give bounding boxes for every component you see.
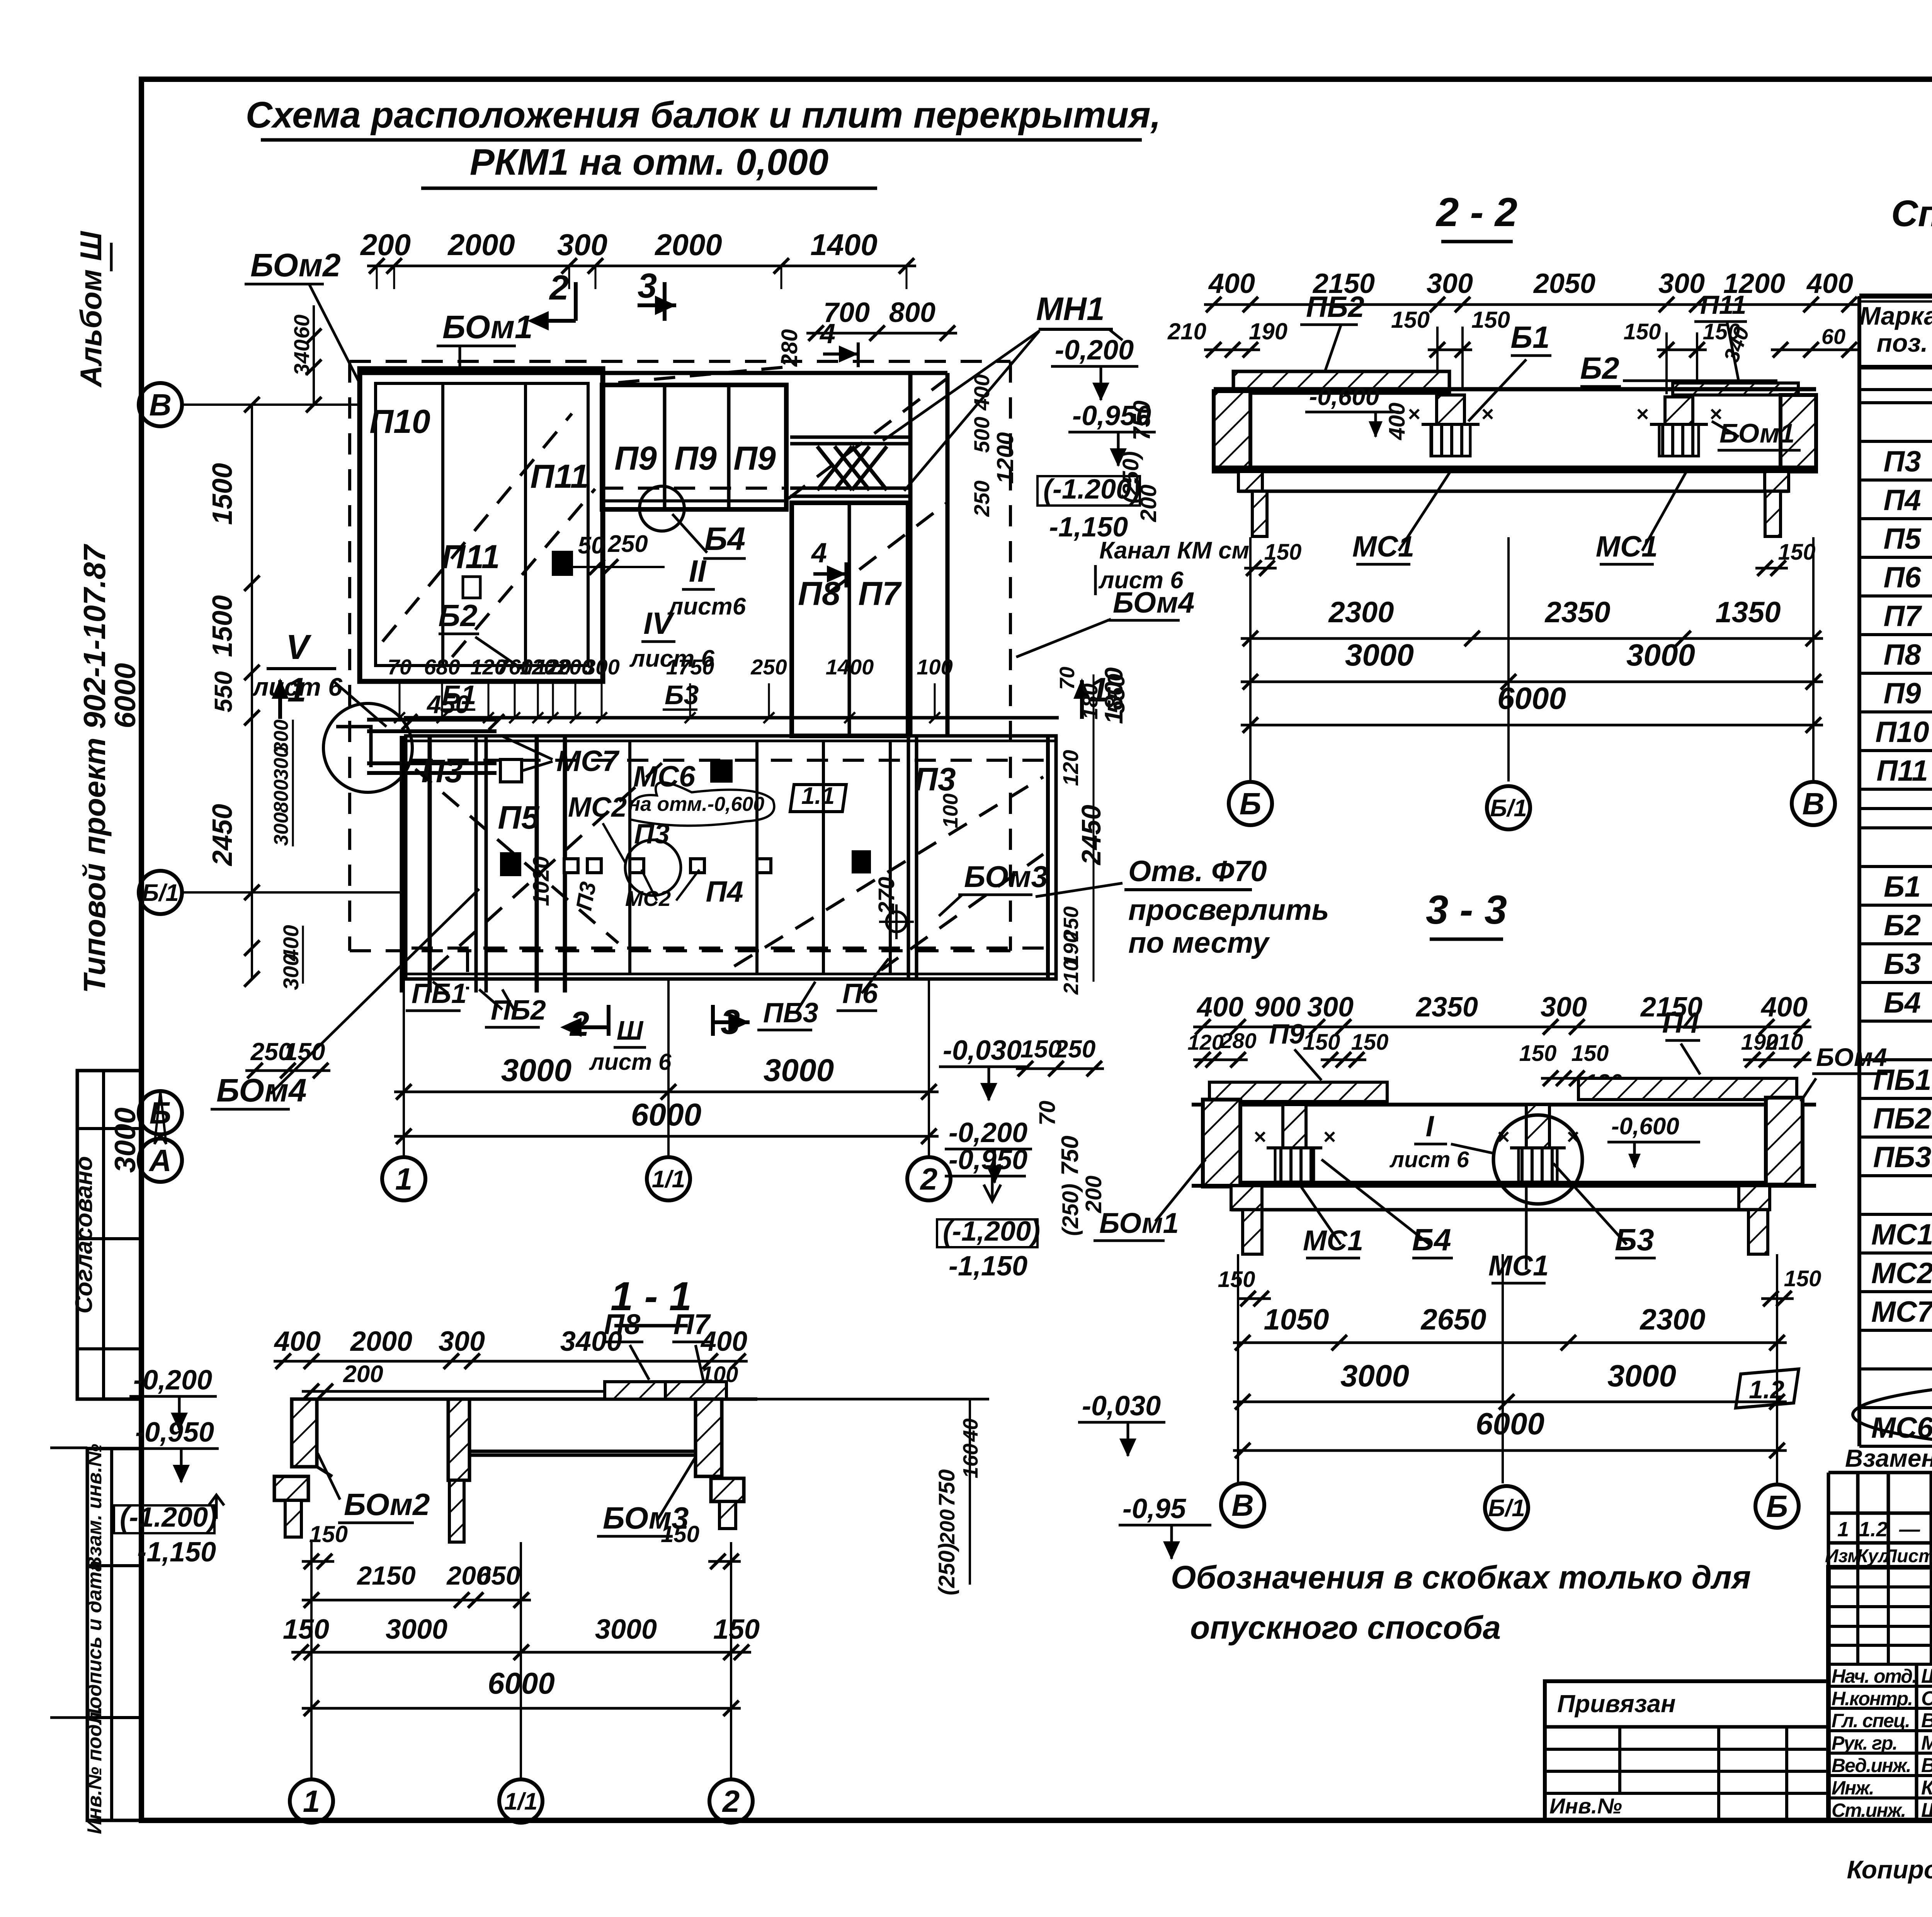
- svg-text:210: 210: [1765, 1030, 1803, 1055]
- svg-text:200: 200: [1081, 1176, 1106, 1214]
- svg-text:Изм: Изм: [1825, 1546, 1861, 1566]
- svg-text:1200: 1200: [992, 432, 1018, 484]
- svg-text:Типовой проект 902-1-107.87: Типовой проект 902-1-107.87: [77, 544, 112, 993]
- svg-text:Марка,: Марка,: [1859, 301, 1932, 330]
- svg-text:3000: 3000: [595, 1614, 657, 1645]
- svg-text:-0,200: -0,200: [133, 1365, 212, 1396]
- svg-text:4: 4: [811, 538, 827, 569]
- svg-text:П6: П6: [842, 978, 878, 1009]
- svg-text:2650: 2650: [1420, 1303, 1486, 1336]
- svg-text:П3: П3: [1884, 445, 1921, 478]
- svg-text:-1,150: -1,150: [949, 1251, 1027, 1282]
- svg-text:150: 150: [1391, 307, 1430, 333]
- svg-text:Подпись и дата: Подпись и дата: [83, 1560, 106, 1723]
- svg-text:Шильмовер: Шильмовер: [1921, 1799, 1932, 1822]
- svg-text:-0,030: -0,030: [1082, 1391, 1161, 1422]
- svg-text:180: 180: [1078, 683, 1102, 719]
- svg-text:П9: П9: [674, 440, 717, 477]
- svg-text:6000: 6000: [631, 1097, 701, 1132]
- svg-text:2: 2: [722, 1784, 740, 1818]
- svg-text:МС2: МС2: [568, 792, 627, 823]
- svg-text:П9: П9: [1884, 677, 1921, 710]
- svg-text:П11: П11: [1700, 290, 1747, 320]
- svg-text:Сокольская: Сокольская: [1921, 1687, 1932, 1710]
- svg-text:МН1: МН1: [1036, 291, 1104, 327]
- svg-text:Б2: Б2: [1580, 351, 1619, 385]
- svg-text:Б/1: Б/1: [1490, 795, 1527, 822]
- svg-text:400: 400: [969, 374, 994, 410]
- svg-text:В: В: [1802, 787, 1825, 821]
- svg-text:2: 2: [920, 1162, 938, 1196]
- svg-text:П4: П4: [1884, 484, 1921, 517]
- svg-text:Корнюхин: Корнюхин: [1921, 1777, 1932, 1799]
- svg-text:750: 750: [1129, 400, 1155, 440]
- svg-text:Н.контр.: Н.контр.: [1832, 1688, 1912, 1709]
- svg-text:МС1: МС1: [1871, 1218, 1932, 1251]
- svg-text:П7: П7: [673, 1308, 711, 1340]
- svg-text:1500: 1500: [207, 595, 238, 657]
- svg-text:ПБ2: ПБ2: [1306, 291, 1364, 323]
- svg-text:3000: 3000: [1345, 638, 1414, 672]
- svg-text:БОм4: БОм4: [216, 1072, 307, 1108]
- svg-text:А: А: [148, 1143, 172, 1178]
- svg-text:150: 150: [1218, 1267, 1255, 1292]
- svg-text:1350: 1350: [1715, 596, 1781, 629]
- svg-text:300: 300: [270, 747, 293, 780]
- svg-text:2 - 2: 2 - 2: [1435, 190, 1517, 235]
- svg-text:Вед.инж.: Вед.инж.: [1832, 1755, 1911, 1776]
- svg-text:Спецификация к схеме расположе: Спецификация к схеме расположения: [1891, 193, 1932, 234]
- svg-text:300: 300: [270, 812, 293, 846]
- svg-text:3000: 3000: [109, 1107, 142, 1173]
- svg-text:Гл. спец.: Гл. спец.: [1832, 1710, 1910, 1731]
- svg-text:ПБ2: ПБ2: [491, 995, 546, 1026]
- svg-text:70: 70: [1035, 1101, 1060, 1126]
- svg-text:Б4: Б4: [1884, 986, 1921, 1019]
- svg-text:-1,150: -1,150: [137, 1537, 216, 1568]
- svg-text:П3: П3: [571, 880, 601, 913]
- svg-text:Альбом Ш: Альбом Ш: [74, 231, 108, 388]
- svg-text:-0,030: -0,030: [943, 1035, 1022, 1066]
- svg-text:Власенко: Власенко: [1921, 1709, 1932, 1732]
- svg-text:2300: 2300: [1639, 1303, 1705, 1336]
- svg-text:Шейко: Шейко: [1921, 1665, 1932, 1687]
- svg-text:просверлить: просверлить: [1128, 894, 1329, 926]
- svg-text:Б/1: Б/1: [1488, 1495, 1525, 1522]
- svg-text:-0,950: -0,950: [949, 1144, 1027, 1175]
- svg-text:400: 400: [1806, 268, 1853, 299]
- svg-text:Б: Б: [1766, 1489, 1788, 1524]
- svg-text:Б1: Б1: [1884, 870, 1921, 903]
- svg-text:МС7: МС7: [1871, 1296, 1932, 1328]
- svg-text:210: 210: [1060, 960, 1083, 995]
- svg-text:Мозолова: Мозолова: [1921, 1732, 1932, 1754]
- svg-text:Б: Б: [1240, 787, 1262, 821]
- svg-text:на отм.-0,600: на отм.-0,600: [628, 793, 765, 815]
- svg-text:1: 1: [303, 1784, 320, 1818]
- svg-text:2: 2: [549, 269, 569, 307]
- svg-text:1/1: 1/1: [652, 1166, 685, 1193]
- svg-text:лист 6: лист 6: [589, 1049, 672, 1075]
- svg-text:Б1: Б1: [1510, 320, 1549, 354]
- svg-text:2150: 2150: [356, 1561, 415, 1590]
- svg-text:3000: 3000: [386, 1614, 447, 1645]
- svg-text:1: 1: [1837, 1518, 1849, 1541]
- svg-text:БОм4: БОм4: [1816, 1043, 1887, 1071]
- svg-text:150: 150: [1264, 540, 1302, 565]
- svg-text:БОм3: БОм3: [964, 860, 1048, 894]
- svg-text:300: 300: [279, 954, 303, 990]
- svg-text:200: 200: [360, 228, 411, 262]
- svg-text:П10: П10: [369, 403, 430, 440]
- svg-text:-0,200: -0,200: [1055, 335, 1134, 366]
- svg-text:Ш: Ш: [617, 1015, 644, 1045]
- svg-text:П7: П7: [1884, 600, 1923, 633]
- svg-text:П8: П8: [1884, 638, 1922, 671]
- svg-text:-0,200: -0,200: [949, 1117, 1027, 1148]
- svg-text:300: 300: [439, 1326, 485, 1357]
- svg-text:2450: 2450: [1076, 805, 1106, 866]
- svg-text:-0,950: -0,950: [135, 1417, 214, 1448]
- svg-text:Б/1: Б/1: [142, 880, 179, 906]
- svg-text:70: 70: [1056, 667, 1079, 690]
- svg-text:МС6: МС6: [633, 760, 696, 793]
- svg-text:-0,95: -0,95: [1122, 1493, 1186, 1524]
- svg-text:750: 750: [1057, 1136, 1083, 1175]
- svg-text:50: 50: [578, 532, 605, 559]
- svg-text:250: 250: [607, 531, 648, 557]
- svg-text:БОм2: БОм2: [250, 247, 341, 283]
- svg-text:Б2: Б2: [1884, 909, 1921, 942]
- svg-text:1/1: 1/1: [504, 1788, 537, 1815]
- svg-text:МС2: МС2: [1871, 1257, 1932, 1290]
- svg-text:П9: П9: [733, 440, 776, 477]
- svg-text:150: 150: [1471, 307, 1510, 333]
- svg-text:6000: 6000: [109, 663, 142, 728]
- svg-text:Взам. инв.№: Взам. инв.№: [83, 1444, 106, 1571]
- svg-text:Рук. гр.: Рук. гр.: [1832, 1732, 1897, 1754]
- svg-text:1800: 1800: [1099, 667, 1128, 724]
- svg-text:Инж.: Инж.: [1832, 1777, 1874, 1799]
- svg-text:ПБ3: ПБ3: [763, 998, 818, 1028]
- svg-text:2000: 2000: [654, 228, 722, 262]
- svg-text:ПБ1: ПБ1: [412, 978, 467, 1009]
- svg-text:6000: 6000: [1476, 1406, 1544, 1441]
- svg-text:БОм1: БОм1: [442, 309, 533, 345]
- svg-text:300: 300: [1541, 992, 1587, 1023]
- svg-text:150: 150: [1351, 1030, 1389, 1055]
- svg-text:Б2: Б2: [438, 598, 477, 633]
- svg-text:2000: 2000: [447, 228, 515, 262]
- svg-text:П7: П7: [858, 575, 902, 612]
- svg-text:—: —: [1899, 1518, 1920, 1541]
- svg-text:БОм4: БОм4: [1113, 586, 1194, 619]
- svg-text:Б3: Б3: [665, 680, 699, 710]
- svg-text:800: 800: [270, 780, 293, 813]
- svg-text:120: 120: [1058, 750, 1083, 786]
- svg-text:300: 300: [583, 655, 619, 679]
- svg-text:150: 150: [661, 1521, 699, 1547]
- svg-text:лист6: лист6: [667, 593, 746, 620]
- svg-text:МС1: МС1: [1303, 1224, 1363, 1256]
- svg-text:×: ×: [1253, 1124, 1266, 1149]
- svg-text:МС2: МС2: [625, 886, 671, 911]
- svg-text:Возионов: Возионов: [1921, 1754, 1932, 1777]
- svg-text:150: 150: [1519, 1041, 1557, 1066]
- svg-text:3000: 3000: [1607, 1359, 1676, 1393]
- svg-text:ПБ2: ПБ2: [1873, 1102, 1932, 1135]
- svg-text:×: ×: [1323, 1124, 1336, 1149]
- svg-text:П11: П11: [1876, 754, 1928, 787]
- svg-text:210: 210: [1167, 318, 1206, 344]
- svg-text:(250): (250): [934, 1543, 959, 1595]
- svg-text:400: 400: [274, 1326, 321, 1357]
- svg-text:100: 100: [917, 655, 952, 679]
- svg-text:250: 250: [1054, 1035, 1096, 1063]
- svg-text:(250): (250): [1058, 1183, 1083, 1236]
- svg-text:1: 1: [395, 1162, 413, 1196]
- svg-text:120: 120: [1187, 1030, 1223, 1054]
- svg-text:1400: 1400: [810, 228, 878, 262]
- svg-text:Копировал: Годовская: Копировал: Годовская: [1847, 1855, 1932, 1884]
- svg-text:60: 60: [289, 315, 314, 339]
- svg-text:1.2: 1.2: [1859, 1518, 1888, 1541]
- svg-text:2050: 2050: [1533, 268, 1595, 299]
- svg-text:П10: П10: [1875, 716, 1929, 749]
- svg-text:-0,600: -0,600: [1611, 1113, 1679, 1140]
- svg-text:П4: П4: [706, 875, 743, 908]
- svg-text:II: II: [689, 554, 707, 588]
- svg-text:280: 280: [1220, 1028, 1256, 1053]
- svg-text:1500: 1500: [207, 463, 238, 525]
- svg-text:I: I: [1425, 1110, 1434, 1143]
- svg-text:IV: IV: [643, 606, 675, 640]
- svg-text:П9: П9: [614, 440, 657, 477]
- svg-text:300: 300: [1307, 992, 1354, 1023]
- svg-text:2000: 2000: [350, 1326, 412, 1357]
- svg-text:400: 400: [1384, 403, 1410, 441]
- svg-text:150: 150: [1778, 540, 1816, 565]
- svg-text:200: 200: [343, 1361, 383, 1388]
- svg-text:100: 100: [939, 793, 962, 828]
- svg-text:2350: 2350: [1415, 992, 1478, 1023]
- svg-text:680: 680: [424, 655, 460, 679]
- svg-text:ПБ3: ПБ3: [1873, 1141, 1932, 1174]
- svg-text:500: 500: [969, 417, 994, 453]
- svg-text:В: В: [1231, 1488, 1254, 1522]
- svg-text:550: 550: [209, 671, 237, 713]
- svg-text:150: 150: [1571, 1041, 1609, 1066]
- svg-text:П6: П6: [1884, 561, 1922, 594]
- svg-text:1.1: 1.1: [801, 783, 835, 809]
- svg-text:250: 250: [969, 480, 994, 517]
- svg-text:2450: 2450: [207, 804, 238, 867]
- svg-text:3000: 3000: [764, 1053, 834, 1088]
- svg-text:П5: П5: [1884, 523, 1922, 555]
- svg-text:МС1: МС1: [1596, 530, 1658, 563]
- svg-text:П11: П11: [441, 538, 500, 575]
- svg-text:150: 150: [713, 1614, 760, 1645]
- svg-text:П9: П9: [1269, 1019, 1304, 1050]
- svg-text:3000: 3000: [501, 1053, 571, 1088]
- svg-text:П4: П4: [1662, 1006, 1700, 1039]
- svg-text:Б4: Б4: [704, 521, 745, 557]
- svg-text:3: 3: [638, 267, 657, 305]
- svg-text:900: 900: [1254, 992, 1301, 1023]
- svg-text:400: 400: [1196, 992, 1243, 1023]
- svg-text:60: 60: [1821, 324, 1845, 349]
- svg-text:3000: 3000: [1626, 638, 1695, 672]
- svg-text:Схема расположения балок и п: Схема расположения балок и плит перекрыт…: [246, 94, 1161, 136]
- svg-text:Нач. отд.: Нач. отд.: [1832, 1665, 1917, 1687]
- svg-text:БОм1: БОм1: [1099, 1207, 1179, 1239]
- svg-text:Лист: Лист: [1883, 1546, 1932, 1566]
- svg-text:150: 150: [309, 1521, 348, 1547]
- svg-text:РКМ1 на отм. 0,000: РКМ1 на отм. 0,000: [470, 141, 828, 183]
- svg-text:1: 1: [287, 671, 306, 709]
- svg-text:Б1: Б1: [442, 680, 476, 710]
- svg-text:П5: П5: [498, 799, 539, 836]
- svg-text:300: 300: [1427, 268, 1473, 299]
- svg-text:150: 150: [1784, 1266, 1821, 1291]
- svg-text:4: 4: [819, 318, 835, 349]
- svg-text:МС1: МС1: [1352, 530, 1414, 563]
- svg-text:Инв.№ подл.: Инв.№ подл.: [83, 1706, 106, 1834]
- svg-text:650: 650: [476, 1561, 520, 1590]
- svg-text:П8: П8: [604, 1308, 641, 1340]
- svg-text:МС1: МС1: [1488, 1250, 1549, 1282]
- svg-text:800: 800: [889, 297, 935, 328]
- svg-text:70: 70: [388, 655, 412, 679]
- svg-text:200: 200: [936, 1509, 959, 1544]
- svg-text:2350: 2350: [1544, 596, 1610, 629]
- svg-text:1400: 1400: [826, 655, 874, 679]
- svg-text:300: 300: [557, 228, 607, 262]
- svg-text:Отв. Ф70: Отв. Ф70: [1128, 855, 1267, 888]
- svg-text:250: 250: [750, 655, 787, 679]
- svg-text:750: 750: [934, 1469, 959, 1507]
- svg-text:V: V: [286, 628, 312, 667]
- svg-text:-0,600: -0,600: [1309, 383, 1379, 410]
- svg-text:400: 400: [1208, 268, 1255, 299]
- svg-text:Инв.№: Инв.№: [1549, 1794, 1622, 1818]
- svg-text:Канал КМ см: Канал КМ см: [1099, 537, 1249, 564]
- svg-text:×: ×: [1636, 402, 1649, 426]
- svg-text:200: 200: [1136, 485, 1161, 523]
- svg-text:400: 400: [1760, 992, 1808, 1023]
- svg-text:В: В: [149, 388, 172, 422]
- svg-text:поз.: поз.: [1877, 329, 1928, 357]
- svg-text:300: 300: [1658, 268, 1705, 299]
- svg-text:Б4: Б4: [1412, 1222, 1451, 1257]
- svg-text:150: 150: [1624, 319, 1661, 344]
- svg-text:3000: 3000: [1340, 1359, 1409, 1393]
- svg-text:П3: П3: [914, 761, 956, 797]
- svg-text:1050: 1050: [1264, 1303, 1329, 1336]
- svg-text:лист 6: лист 6: [1389, 1147, 1469, 1172]
- svg-text:Согласовано: Согласовано: [71, 1156, 97, 1314]
- svg-text:Привязан: Привязан: [1557, 1690, 1676, 1718]
- svg-text:П8: П8: [798, 575, 840, 612]
- svg-text:280: 280: [777, 329, 802, 367]
- svg-text:3 - 3: 3 - 3: [1426, 887, 1507, 933]
- svg-text:Обозначения в скобках только д: Обозначения в скобках только для: [1171, 1559, 1751, 1595]
- svg-text:опускного способа: опускного способа: [1190, 1609, 1501, 1646]
- svg-text:Взамен листа КЖ1. Ст.инж Гофр: Взамен листа КЖ1. Ст.инж Гофр /Подзолков…: [1845, 1444, 1932, 1472]
- svg-text:БОм2: БОм2: [344, 1487, 430, 1522]
- svg-text:П3: П3: [421, 753, 463, 789]
- svg-text:по месту: по месту: [1128, 926, 1270, 959]
- svg-text:Б3: Б3: [1884, 948, 1921, 981]
- svg-text:Ст.инж.: Ст.инж.: [1832, 1800, 1905, 1821]
- svg-text:2300: 2300: [1328, 596, 1394, 629]
- svg-text:1750: 1750: [666, 655, 714, 679]
- svg-text:150: 150: [283, 1614, 329, 1645]
- svg-text:190: 190: [1249, 318, 1287, 344]
- svg-text:150: 150: [1303, 1030, 1340, 1055]
- svg-text:П11: П11: [530, 458, 588, 495]
